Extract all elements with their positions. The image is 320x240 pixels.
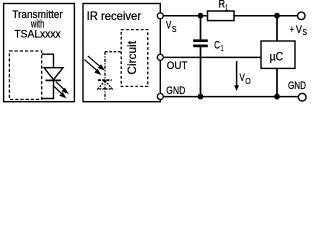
svg-text:IR receiver: IR receiver [87, 10, 142, 23]
svg-text:µC: µC [270, 51, 284, 64]
svg-text:TSALxxxx: TSALxxxx [14, 28, 61, 40]
svg-text:R: R [219, 0, 226, 11]
svg-text:OUT: OUT [167, 60, 188, 72]
svg-text:1: 1 [225, 2, 228, 12]
svg-text:GND: GND [166, 85, 185, 97]
svg-text:O: O [245, 76, 251, 86]
svg-text:V: V [166, 20, 172, 32]
svg-text:+: + [290, 24, 294, 36]
svg-text:C: C [214, 40, 220, 52]
svg-text:Circuit: Circuit [126, 40, 139, 74]
svg-text:1: 1 [221, 43, 224, 53]
svg-text:S: S [302, 27, 307, 37]
svg-text:S: S [172, 24, 177, 34]
svg-text:GND: GND [288, 80, 306, 92]
